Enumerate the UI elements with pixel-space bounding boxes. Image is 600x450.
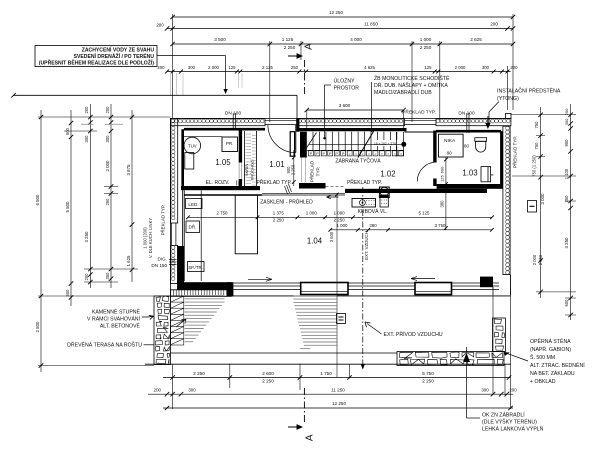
svg-text:3 750: 3 750 (435, 223, 447, 228)
top exterior wall outer face line (171, 118, 511, 120)
svg-text:1.02: 1.02 (380, 170, 395, 179)
staircase treads (313, 132, 397, 151)
shelf line room 1.05 (184, 136, 222, 138)
svg-text:ALT. BETONOVÉ: ALT. BETONOVÉ (100, 323, 141, 330)
terrain drainage line (11, 93, 297, 118)
svg-text:PŘEKLAD TYP.: PŘEKLAD TYP. (256, 178, 291, 186)
svg-text:A: A (304, 43, 315, 50)
terrace edge lines (145, 353, 511, 364)
stair right newel column (395, 132, 404, 156)
zb monoliticke schodiste annotation (370, 74, 450, 132)
svg-text:=: = (362, 152, 364, 156)
dig dn150 label (151, 257, 176, 268)
note box: zachyceni vody ze svahu (35, 46, 157, 67)
wc toilet (475, 138, 487, 152)
svg-text:P: P (323, 152, 326, 156)
svg-text:750: 750 (534, 142, 539, 150)
svg-text:KRBOVÁ VL.: KRBOVÁ VL. (358, 208, 388, 215)
glazing frame left of 1.01 (290, 132, 294, 157)
kamenne stupne annotation (87, 308, 153, 330)
dimension line 11 850 (156, 22, 515, 31)
svg-text:DN 150: DN 150 (151, 263, 167, 268)
svg-text:600: 600 (440, 166, 445, 173)
svg-text:18 x 182 + 270: 18 x 182 + 270 (374, 142, 396, 146)
svg-text:(NAPŘ. GABION): (NAPŘ. GABION) (530, 345, 571, 353)
svg-text:OPĚRNÁ STĚNA: OPĚRNÁ STĚNA (530, 337, 571, 345)
svg-text:11 250: 11 250 (331, 388, 345, 393)
bathroom dim chain 600/125/380 (440, 157, 448, 230)
zabrana tycova posts row (309, 151, 404, 156)
svg-text:200: 200 (490, 22, 498, 27)
section mark A top (288, 43, 315, 96)
svg-text:2 250: 2 250 (262, 378, 274, 383)
right exterior wall insulation band (503, 126, 510, 274)
top wall masonry line (184, 129, 501, 131)
svg-text:250: 250 (291, 65, 299, 70)
instalacni predstena annotation (489, 87, 561, 127)
svg-text:300: 300 (105, 135, 110, 143)
svg-text:200: 200 (510, 65, 518, 70)
bottom extension verticals (173, 295, 511, 409)
svg-text:200: 200 (105, 106, 110, 114)
ok zn zabradli annotation (467, 347, 544, 433)
svg-text:3 500: 3 500 (214, 37, 226, 42)
svg-text:750 (1 250): 750 (1 250) (532, 155, 537, 177)
svg-text:300: 300 (188, 65, 196, 70)
svg-text:1 375: 1 375 (273, 211, 285, 216)
svg-text:5 750: 5 750 (422, 371, 434, 376)
stair break diagonal (358, 131, 374, 158)
left wall solid pocket below window (177, 246, 184, 284)
svg-text:380: 380 (369, 223, 377, 228)
left dim chain 500/5500/500 (65, 110, 73, 306)
svg-text:2 600: 2 600 (262, 371, 274, 376)
svg-text:1 000: 1 000 (420, 37, 432, 42)
svg-text:3 600: 3 600 (329, 231, 334, 242)
svg-text:PŘEKLAD TYP.: PŘEKLAD TYP. (511, 136, 518, 168)
svg-text:2 250: 2 250 (538, 254, 543, 265)
kuch linka rotated note (143, 218, 154, 259)
room 1.05 PR box (222, 137, 238, 152)
facade right corner block (480, 275, 511, 296)
left stone retaining wall (154, 296, 171, 365)
small arrow left 1.04 (327, 195, 339, 199)
left chains connector stubs (38, 117, 171, 366)
stone steps hatch (171, 296, 184, 345)
svg-text:600: 600 (564, 299, 569, 307)
svg-text:ŽB MONOLITICKÉ SCHODIŠTĚ: ŽB MONOLITICKÉ SCHODIŠTĚ (374, 74, 450, 82)
svg-text:TYP.: TYP. (316, 167, 321, 177)
left dim chain 200/300/3250/200 (84, 104, 92, 288)
wall between 1.05 and 1.04 (181, 186, 260, 190)
leader from note box with down arrow (157, 56, 228, 94)
svg-text:SP./TR.: SP./TR. (188, 265, 203, 270)
terrace deck lines group left (185, 296, 225, 342)
operna stena annotation (504, 337, 586, 385)
svg-text:6 500: 6 500 (35, 194, 40, 206)
svg-text:1 000: 1 000 (306, 211, 318, 216)
wall pier between 1.01 and 1.02 (300, 132, 307, 158)
ext privod vzduchu annotation (365, 322, 443, 338)
interior glazing zaskleni-pruhled (262, 193, 345, 195)
svg-text:2 250: 2 250 (284, 45, 296, 50)
facade window frame 2 (415, 283, 452, 295)
right dim chain 200/300/900/1100/250/3250/600 (564, 104, 573, 320)
room 1.05 TUV boiler circle (184, 137, 201, 169)
svg-text:250: 250 (105, 198, 110, 206)
svg-text:LED.: LED. (188, 202, 198, 207)
drevena terasa annotation (67, 341, 154, 349)
svg-text:125: 125 (424, 65, 432, 70)
left counter strip with LED DR SP boxes (184, 190, 204, 281)
svg-text:2 000: 2 000 (105, 160, 110, 172)
window mark I box (528, 201, 537, 213)
extension lines from top dims to building (171, 14, 513, 122)
gabion wall strip bottom (397, 352, 504, 366)
svg-text:=: = (368, 152, 370, 156)
svg-text:300: 300 (564, 118, 569, 125)
dimension line 12 250 (top) (170, 10, 515, 19)
svg-text:350: 350 (105, 272, 110, 280)
svg-text:125: 125 (440, 174, 445, 181)
svg-text:MADLO/ZÁBRADLÍ DUB: MADLO/ZÁBRADLÍ DUB (374, 89, 432, 96)
svg-text:1.05: 1.05 (215, 158, 231, 167)
left exterior wall insulation band (171, 119, 178, 224)
svg-text:A: A (305, 434, 316, 441)
facade window frame 1 (301, 283, 348, 295)
svg-text:2 250: 2 250 (422, 378, 434, 383)
interior dim line 2 room 1.04 (328, 223, 493, 231)
dash line at fireplace wall (326, 186, 346, 188)
left dim chain 6500/2500 (35, 110, 43, 372)
right dim chain 750/750/750/3000/2250 (532, 107, 545, 298)
svg-text:P: P (310, 152, 313, 156)
svg-text:1 000: 1 000 (337, 223, 349, 228)
svg-text:ZÁBRANA TYČOVÁ: ZÁBRANA TYČOVÁ (335, 157, 381, 164)
svg-text:PŘEKLAD TYP.: PŘEKLAD TYP. (161, 205, 166, 236)
left exterior wall outer face line (170, 119, 172, 297)
svg-text:4 625: 4 625 (364, 65, 375, 70)
kitchen island (235, 195, 257, 254)
svg-text:PRŮCHOZÍ: PRŮCHOZÍ (249, 159, 254, 181)
svg-text:DŘEVĚNÁ TERASA NA ROŠTU: DŘEVĚNÁ TERASA NA ROŠTU (67, 341, 142, 349)
svg-text:200: 200 (156, 23, 164, 28)
stair start dot (401, 142, 406, 147)
wall between 1.05 and closet (239, 131, 242, 187)
svg-text:2 250: 2 250 (193, 371, 205, 376)
svg-text:ZASKLENÍ - PRŮHLED: ZASKLENÍ - PRŮHLED (260, 199, 313, 206)
svg-text:2 500: 2 500 (35, 321, 40, 333)
svg-text:2 250: 2 250 (334, 218, 346, 223)
svg-text:500: 500 (65, 289, 70, 297)
stair direction line (307, 133, 317, 148)
bottom-left wall slab (171, 282, 232, 296)
svg-text:2 750: 2 750 (217, 211, 229, 216)
svg-text:TUV: TUV (188, 144, 197, 149)
left wall window opening (172, 223, 176, 246)
svg-text:1 125: 1 125 (282, 37, 294, 42)
svg-text:+ OBKLAD: + OBKLAD (530, 379, 556, 385)
svg-text:380: 380 (440, 200, 445, 208)
svg-text:KAMENNÉ STUPNĚ: KAMENNÉ STUPNĚ (92, 308, 141, 316)
nika box (439, 134, 470, 157)
bottom dim line 200/300/11250/300/200 (148, 388, 517, 397)
svg-text:DIG.: DIG. (158, 257, 167, 262)
washbasin (481, 167, 493, 182)
svg-text:3 250: 3 250 (84, 231, 89, 243)
vertical dim 3600 inside 1.04 (329, 193, 339, 378)
svg-text:1 750: 1 750 (320, 371, 332, 376)
svg-text:200: 200 (509, 388, 517, 393)
svg-text:=: = (400, 152, 402, 156)
svg-text:1 000 (200): 1 000 (200) (143, 227, 148, 249)
svg-text:PR.: PR. (226, 141, 234, 146)
right wall inner masonry line (500, 131, 503, 188)
room 1.01 vertical dim 900/2250 (286, 150, 296, 186)
ext vzduch dashdot line (361, 187, 369, 370)
door jamb pier right of entry (296, 119, 299, 132)
svg-text:3 250: 3 250 (564, 237, 569, 249)
top wall door opening 1.01 lintel lines (265, 120, 298, 124)
svg-text:=: = (349, 152, 351, 156)
left wall masonry line (181, 129, 184, 246)
svg-text:80: 80 (464, 143, 469, 148)
svg-text:750: 750 (534, 121, 539, 129)
svg-text:200: 200 (84, 106, 89, 114)
wall between 1.02 and 1.03 (433, 131, 436, 162)
kitchen counter along north wall (352, 198, 388, 208)
dimension line 3500/1125/4000/1000/2625 (170, 37, 515, 50)
bathroom door arc (417, 162, 437, 187)
bathroom bottom wall (437, 184, 503, 189)
svg-text:=: = (394, 152, 396, 156)
svg-text:LEHKÁ LANKOVÁ VÝPLŇ: LEHKÁ LANKOVÁ VÝPLŇ (482, 426, 544, 433)
section mark A bottom (288, 388, 316, 441)
svg-text:1 000: 1 000 (334, 211, 346, 216)
svg-text:5 500: 5 500 (65, 201, 70, 213)
fireplace krbova vlozka (358, 187, 390, 215)
window mark II box (337, 314, 346, 324)
counter edge line below wall 1.05 (184, 194, 262, 196)
threshold hatch mark near 1.01 (285, 184, 292, 194)
svg-text:3 600: 3 600 (339, 103, 351, 108)
svg-text:DŘ. DUB. NÁŠLAPY + OMÍTKA: DŘ. DUB. NÁŠLAPY + OMÍTKA (374, 81, 448, 89)
staircase bottom rail line (307, 149, 404, 151)
svg-text:P: P (335, 152, 338, 156)
svg-text:V. DLE KUCH. LINKY: V. DLE KUCH. LINKY (148, 218, 153, 259)
svg-text:PŘEKLAD: PŘEKLAD (308, 160, 315, 182)
terrace deck lines group right (294, 296, 337, 349)
svg-text:P: P (342, 152, 345, 156)
room 1.01 entry door leaf and arc (268, 125, 296, 153)
svg-text:12 250: 12 250 (329, 10, 343, 15)
stair text plate (372, 140, 399, 146)
svg-text:ÚLOŽNÝ: ÚLOŽNÝ (334, 77, 356, 85)
svg-text:EXT. VZDUCH: EXT. VZDUCH (364, 231, 369, 260)
svg-text:V RÁMCI SVAHOVÁNÍ: V RÁMCI SVAHOVÁNÍ (87, 316, 140, 323)
preklad typ rotated left of 1.02 (308, 160, 321, 182)
ulozny prostor annotation (323, 77, 359, 140)
svg-text:=: = (374, 152, 376, 156)
svg-text:EL. ROZV.: EL. ROZV. (206, 180, 230, 186)
svg-text:11 850: 11 850 (364, 22, 378, 27)
svg-text:300: 300 (482, 65, 490, 70)
svg-text:Š. 500 MM: Š. 500 MM (530, 354, 555, 361)
svg-text:2 625: 2 625 (470, 37, 482, 42)
svg-text:125: 125 (228, 65, 236, 70)
svg-text:12 250: 12 250 (332, 401, 346, 406)
svg-text:1 100: 1 100 (564, 168, 569, 179)
glass facade south (227, 282, 511, 296)
svg-text:1 625: 1 625 (126, 255, 131, 267)
svg-text:200: 200 (564, 108, 569, 115)
DN100 labels and pipes top wall (225, 111, 511, 134)
bottom dim line 12250 (163, 401, 513, 410)
svg-text:2 000: 2 000 (208, 65, 219, 70)
svg-text:900: 900 (564, 139, 569, 147)
svg-text:5 125: 5 125 (419, 211, 431, 216)
left dim chain 3875/1625 (126, 110, 134, 282)
svg-text:300: 300 (481, 388, 489, 393)
svg-text:1.01: 1.01 (269, 160, 284, 169)
wall between 1.02/1.03 and 1.04 (345, 189, 487, 193)
svg-text:ZACHYCENÍ VODY ZE SVAHU: ZACHYCENÍ VODY ZE SVAHU (82, 46, 155, 54)
svg-text:250: 250 (564, 195, 569, 203)
svg-text:200: 200 (84, 273, 89, 281)
svg-text:=: = (387, 152, 389, 156)
svg-text:NIKA: NIKA (444, 138, 456, 144)
closet skrin pruchozi (244, 131, 256, 186)
top exterior wall insulation band (171, 119, 266, 126)
svg-text:DŘ.: DŘ. (189, 223, 197, 230)
svg-text:SVEDENÍ DRENÁŽÍ / PO TERÉNU: SVEDENÍ DRENÁŽÍ / PO TERÉNU (74, 52, 155, 60)
svg-text:1.03: 1.03 (462, 169, 477, 178)
svg-text:P: P (316, 152, 319, 156)
svg-text:EXT. PŘÍVOD VZDUCHU: EXT. PŘÍVOD VZDUCHU (384, 330, 443, 338)
left dim chain 200/300/2000/250/350 (105, 104, 113, 288)
svg-text:=: = (355, 152, 357, 156)
svg-text:4 000: 4 000 (350, 37, 362, 42)
svg-text:P: P (329, 152, 332, 156)
svg-text:300: 300 (84, 135, 89, 143)
door frame lines below pier (302, 158, 306, 183)
svg-text:3 000: 3 000 (540, 193, 545, 205)
arrow right in 1.04 at facade (248, 277, 272, 281)
bottom dim line 2250/2600/1750 (163, 371, 511, 383)
svg-text:=: = (381, 152, 383, 156)
gabion wall right column (493, 318, 506, 352)
steps arrow (176, 319, 186, 327)
top wall window opening lintel lines (stair window) (402, 108, 436, 132)
svg-text:(UPŘESNIT BĚHEM REALIZACE DLE: (UPŘESNIT BĚHEM REALIZACE DLE PODLOŽÍ) (39, 59, 154, 67)
arrow left in 1.04 at facade right (411, 277, 435, 281)
svg-text:1.04: 1.04 (307, 237, 323, 246)
svg-text:2 250: 2 250 (273, 218, 285, 223)
dimension line 200/300/2000/125/2125/250/4625/125/2000/300/200 (157, 65, 518, 73)
svg-text:NA BET. ZÁKLADU: NA BET. ZÁKLADU (530, 370, 575, 377)
svg-text:INSTALAČNÍ PŘEDSTĚNA: INSTALAČNÍ PŘEDSTĚNA (497, 87, 561, 95)
svg-text:2 250: 2 250 (420, 45, 432, 50)
svg-text:300: 300 (188, 388, 196, 393)
svg-text:2 000: 2 000 (455, 65, 466, 70)
wall stub south of 1.01 (299, 183, 326, 189)
railing triangle marker (463, 353, 470, 363)
svg-text:200: 200 (154, 388, 162, 393)
svg-text:(YTONG): (YTONG) (497, 96, 519, 102)
svg-text:3 875: 3 875 (126, 164, 131, 176)
svg-text:200: 200 (157, 65, 165, 70)
svg-text:PROSTOR: PROSTOR (334, 86, 360, 92)
stair handrail mid line (309, 143, 404, 145)
svg-text:PŘEKLAD TYP.: PŘEKLAD TYP. (347, 178, 382, 186)
svg-text:2 125: 2 125 (262, 65, 273, 70)
right chains connector stubs (511, 115, 577, 315)
svg-text:90: 90 (447, 151, 452, 156)
svg-text:2 250: 2 250 (291, 164, 296, 175)
svg-text:(DLE VÝŠKY TERÉNU): (DLE VÝŠKY TERÉNU) (482, 419, 537, 426)
dim 3600 above stairs (305, 103, 406, 131)
interior dim line room 1.04 (186, 211, 494, 223)
svg-text:OK ZN ZÁBRADLÍ: OK ZN ZÁBRADLÍ (482, 412, 525, 419)
svg-text:ALT. ZTRAC. BEDNĚNÍ: ALT. ZTRAC. BEDNĚNÍ (530, 361, 585, 369)
svg-text:2 000: 2 000 (532, 254, 537, 265)
